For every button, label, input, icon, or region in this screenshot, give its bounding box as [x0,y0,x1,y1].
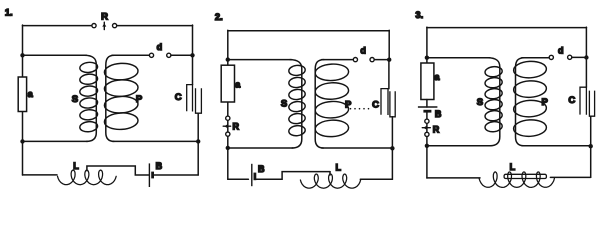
svg-text:2.: 2. [215,12,223,22]
battery B plate long [418,106,438,108]
wire rect to battery [426,100,428,108]
wire right vertical upper [388,30,390,60]
wire right vertical lower [197,141,199,175]
wire top [228,30,389,32]
node bottom-left [425,144,429,148]
battery B plate long [251,164,253,186]
wire row2 [427,57,490,59]
battery B plate short [253,173,256,181]
capacitor C [381,89,395,149]
svg-text:B: B [156,161,163,171]
svg-text:R: R [433,124,440,134]
key R terminal right [113,24,117,28]
wire bottom-left row [228,147,293,149]
node row2-left [226,57,230,61]
wire interrupter to bottom [426,137,428,179]
node row2-left [20,53,24,57]
node d-right rail [387,58,391,62]
secondary coil S [288,60,305,148]
node d-right rail [584,55,588,59]
wire P-top to gap d [522,57,549,59]
wire battery to interrupter [426,111,428,119]
wire gap d to right rail [374,59,389,61]
node bottom-right [196,139,200,143]
svg-text:P: P [542,97,549,108]
wire P-top to gap d [112,54,149,56]
wire row2 [228,59,292,61]
node bottom-right [390,146,394,150]
svg-text:a: a [235,80,241,90]
wire L tap stub [329,172,331,175]
inductor L [479,172,554,188]
capacitor C [580,87,595,146]
svg-text:P: P [136,94,143,105]
battery B plate long [148,163,150,187]
wire left vertical [227,30,229,179]
svg-text:C: C [175,92,182,103]
battery B plate short [423,110,431,113]
interrupter R terminal bottom [425,132,429,136]
wire bottom-left row [23,140,88,142]
wire bottom-left row [427,145,491,147]
wire left vertical [22,25,24,175]
wire right vertical upper [585,27,587,87]
svg-text:1.: 1. [5,8,13,18]
svg-text:d: d [360,46,366,56]
spark gap d terminal left [149,53,153,57]
wire L to right rail [550,176,590,178]
node bottom-right [589,144,593,148]
svg-text:C: C [568,95,575,106]
spark gap d terminal left [353,58,357,62]
svg-text:R: R [101,12,108,23]
resistor a [421,63,434,100]
interrupter R terminal top [226,116,230,120]
svg-text:B: B [258,164,265,174]
svg-text:S: S [281,98,287,109]
interrupter R terminal bottom [226,132,230,136]
primary coil P [104,55,138,141]
capacitor C [187,85,202,142]
wire L tap [87,166,149,175]
interrupter coil L [300,174,360,188]
wire top [427,27,587,29]
resistor a [221,65,234,102]
wire bottom-right row [322,147,393,149]
svg-text:d: d [558,45,564,55]
node d-right rail [190,53,194,57]
wire bottom-left corner [427,177,480,179]
svg-text:a: a [28,89,34,99]
interrupter R plug [223,124,230,128]
wire left vertical [426,27,428,63]
spark gap d terminal right [167,53,171,57]
spark gap d terminal right [370,58,374,62]
node bottom-left [20,139,24,143]
secondary coil S [485,58,503,146]
secondary coil S [79,55,98,141]
node bottom-left [226,146,230,150]
wire battery to L [256,172,330,180]
svg-text:a: a [434,72,440,82]
wire interrupter stem [426,123,428,134]
wire L to right rail [360,178,392,180]
svg-text:C: C [372,100,379,111]
wire right vertical lower [391,148,393,179]
key R plug [102,22,106,29]
wire gap d to right rail [572,56,587,58]
svg-text:L: L [73,161,79,171]
primary coil P [513,58,547,146]
interrupter coil L [58,170,117,185]
svg-text:L: L [510,162,516,172]
wire right vertical upper [192,25,194,85]
wire top-right segment [117,25,193,27]
svg-text:S: S [72,94,78,105]
svg-text:L: L [336,162,342,172]
key R terminal left [92,24,96,28]
spark gap d terminal right [568,55,572,59]
wire gap d to right rail [171,54,193,56]
wire bottom-right row [522,145,591,147]
wire bottom-right row [113,140,199,142]
interrupter R terminal top [425,119,429,123]
slider bar over L [504,174,546,178]
resistor a [18,77,26,112]
node row2-left [425,56,429,60]
svg-text:B: B [435,109,442,119]
battery B plate short [151,172,154,179]
svg-text:R: R [233,121,240,131]
svg-text:S: S [477,97,483,108]
wire row2 [23,54,87,56]
svg-text:3.: 3. [415,10,423,20]
wire rail to capacitor [388,60,390,89]
wire bottom-left corner [228,178,249,180]
primary coil P [315,60,349,148]
interrupter R plug [422,126,430,130]
wire battery to right rail [154,174,198,176]
spark gap d terminal left [549,55,553,59]
wire bottom-left corner [23,174,58,176]
svg-text:d: d [157,42,163,52]
wire right vertical lower [590,146,592,177]
wire top-left segment [23,25,92,27]
wire P-top to gap d [322,59,354,61]
dotted leader P-C [350,108,352,110]
